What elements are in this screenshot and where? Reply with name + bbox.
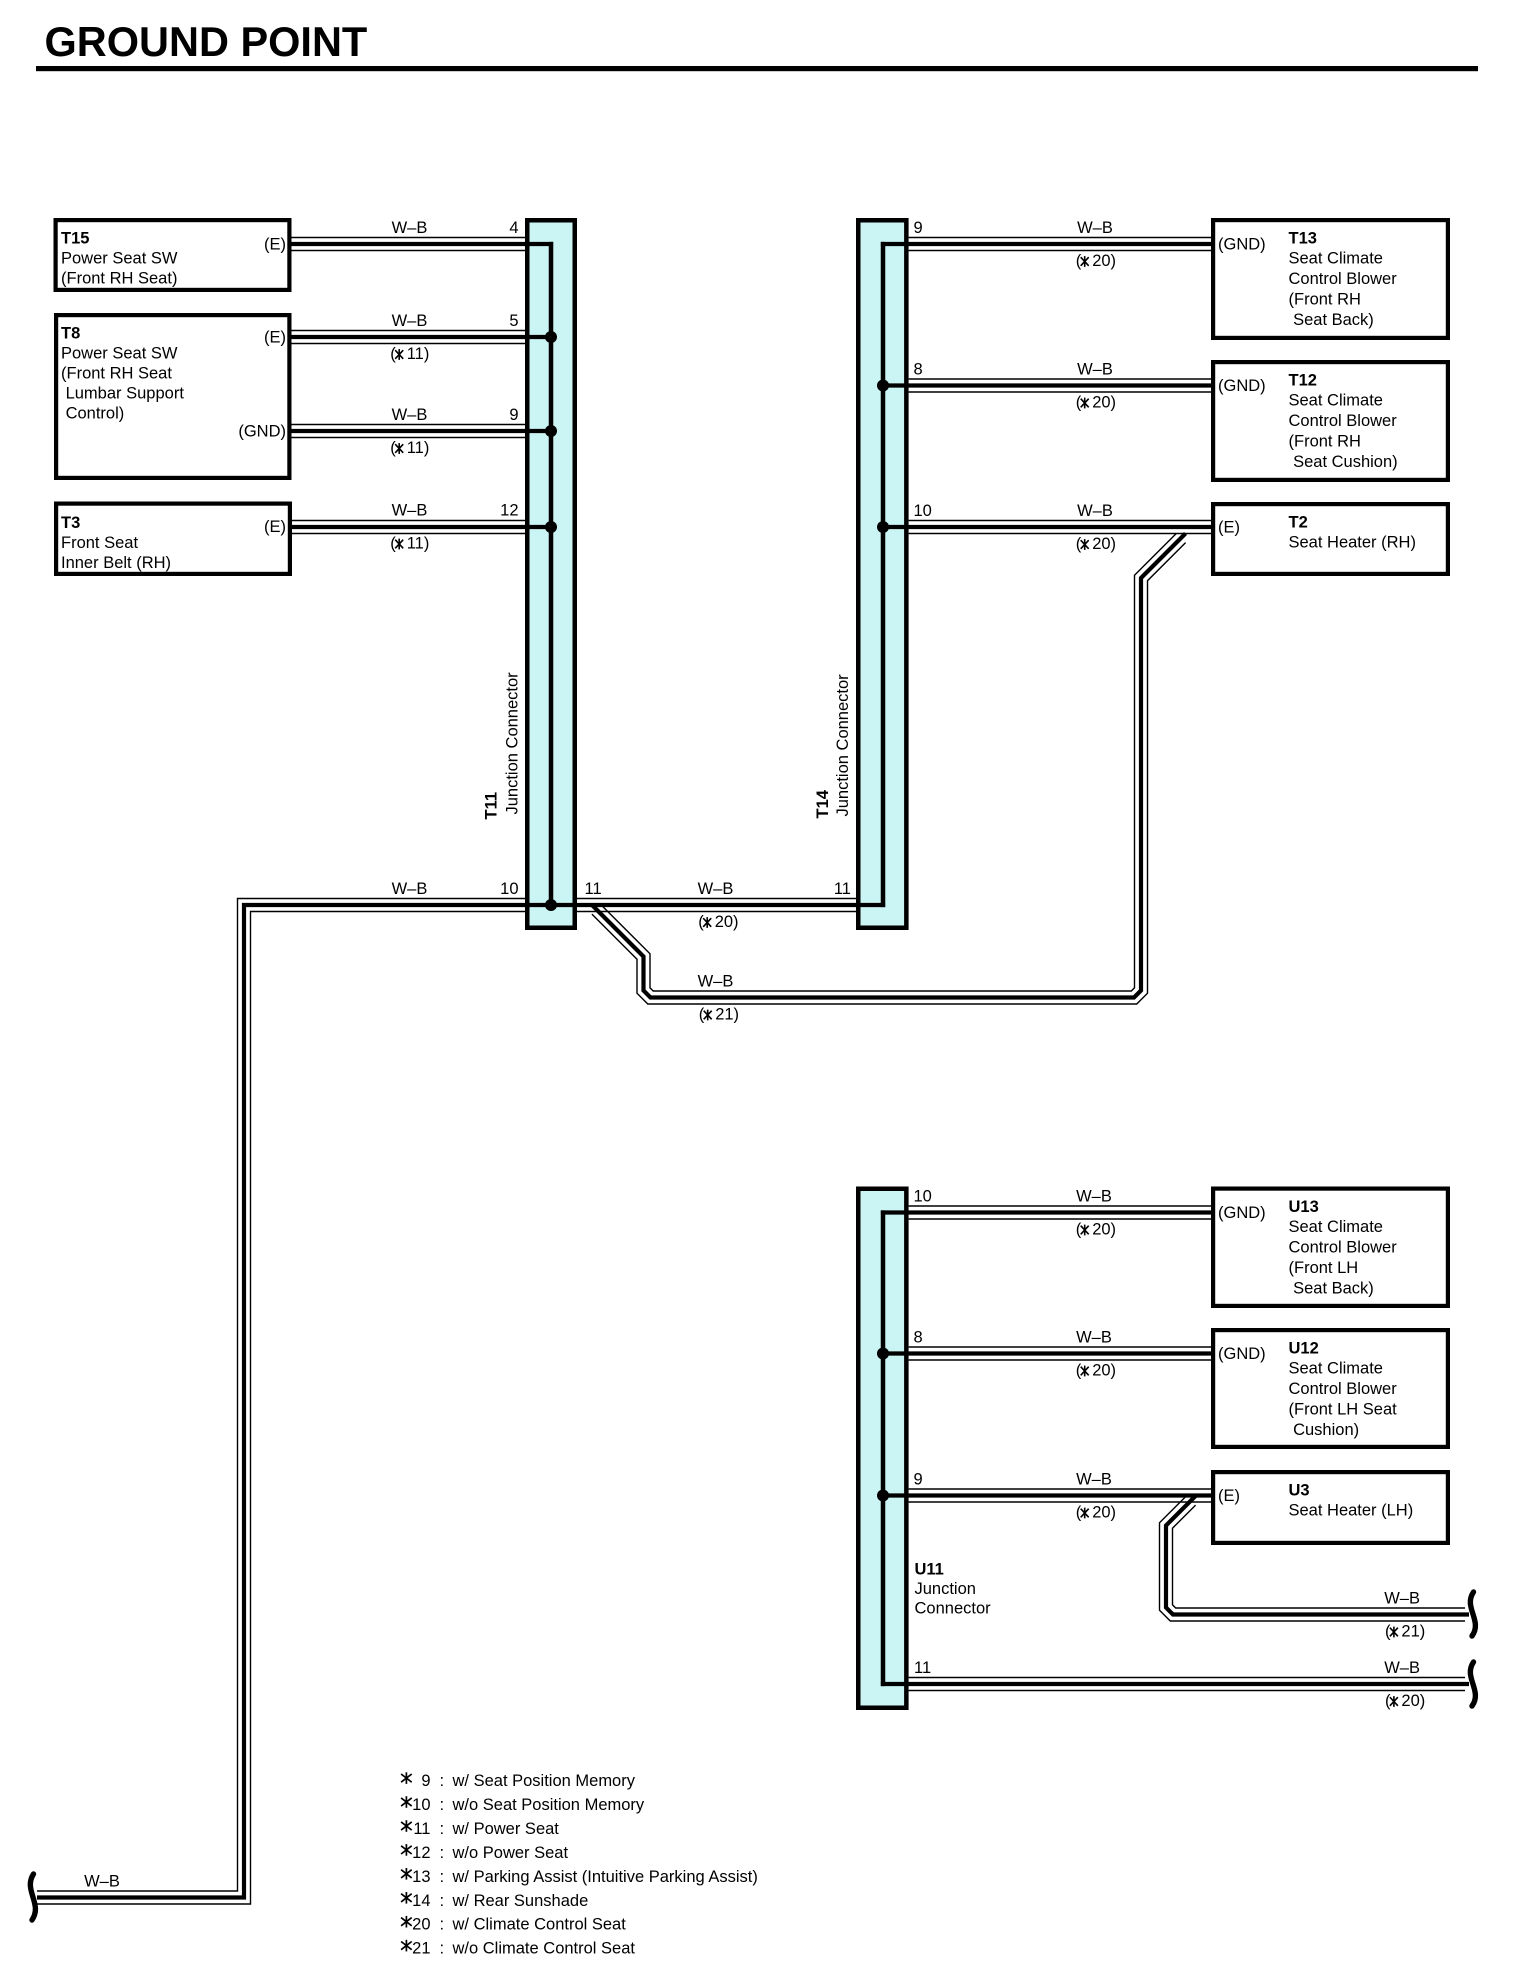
wire W-B: T8 (E) to T11 pin 5 <box>292 331 552 344</box>
legend entry *21 <box>401 1940 635 1958</box>
wire break squiggle bottom-left <box>30 1874 35 1920</box>
wire W-B (*20): U11 pin 8 to U12 (GND) <box>883 1347 1211 1360</box>
svg-text:(GND): (GND) <box>1218 236 1266 254</box>
svg-text:(: ( <box>1076 1362 1082 1380</box>
connector box T12 Seat Climate Control Blower (Front RH Seat Cushion) <box>1213 362 1448 480</box>
svg-text:9: 9 <box>914 219 923 237</box>
legend entry *13 <box>401 1868 758 1886</box>
svg-text:W–B: W–B <box>1076 1471 1112 1489</box>
svg-text:T15: T15 <box>61 230 89 248</box>
junction dot T14 pin 8 <box>877 380 889 392</box>
svg-text:W–B: W–B <box>84 1873 120 1891</box>
svg-text:(GND): (GND) <box>1218 377 1266 395</box>
svg-text:10: 10 <box>412 1796 430 1814</box>
value label (*11) on T3 wire <box>390 535 429 553</box>
value label (*20) on T2 wire <box>1076 535 1116 553</box>
svg-text:10: 10 <box>914 1188 932 1206</box>
wire W-B: T8 (GND) to T11 pin 9 <box>292 425 552 438</box>
svg-text:20): 20) <box>1092 1504 1116 1522</box>
svg-text:10: 10 <box>914 502 932 520</box>
svg-text:Control Blower: Control Blower <box>1289 1239 1398 1257</box>
value label (*20) on U11 pin 11 wire <box>1385 1692 1425 1710</box>
svg-text:(Front RH: (Front RH <box>1289 433 1361 451</box>
svg-text:Control Blower: Control Blower <box>1289 412 1398 430</box>
svg-text:W–B: W–B <box>1077 361 1113 379</box>
svg-text:W–B: W–B <box>698 973 734 991</box>
svg-text:(: ( <box>390 535 396 553</box>
wire W-B: T11 pin 10 down to bottom-left ground lead <box>37 899 551 1905</box>
svg-text::: : <box>440 1820 445 1838</box>
svg-text:Seat Heater (LH): Seat Heater (LH) <box>1289 1502 1414 1520</box>
connector box T13 Seat Climate Control Blower (Front RH Seat Back) <box>1213 220 1448 338</box>
connector box U13 Seat Climate Control Blower (Front LH Seat Back) <box>1213 1189 1448 1306</box>
wire W-B: T3 (E) to T11 pin 12 <box>292 521 551 534</box>
svg-text:T12: T12 <box>1289 371 1317 389</box>
svg-text:20): 20) <box>1092 394 1116 412</box>
svg-text:T8: T8 <box>61 325 80 343</box>
legend entry *12 <box>401 1844 568 1862</box>
junction dot U11 pin 8 <box>877 1348 889 1360</box>
svg-text::: : <box>440 1844 445 1862</box>
svg-text:Control): Control) <box>61 405 124 423</box>
svg-text:W–B: W–B <box>698 880 734 898</box>
wire W-B (*20): U11 pin 11 to right break <box>881 1678 1469 1691</box>
wire break squiggle for U3 (*21) wire <box>1470 1592 1475 1636</box>
svg-text:(E): (E) <box>264 518 286 536</box>
svg-text:(E): (E) <box>1218 519 1240 537</box>
svg-text:Seat Climate: Seat Climate <box>1289 1360 1383 1378</box>
connector box T8 Power Seat SW (Front RH Seat Lumbar Support Control) <box>56 315 289 478</box>
junction dot T14 pin 10 <box>877 521 889 533</box>
svg-text:(E): (E) <box>264 329 286 347</box>
svg-text:Control Blower: Control Blower <box>1289 1380 1398 1398</box>
title underline <box>36 66 1478 71</box>
svg-text:U3: U3 <box>1289 1481 1310 1499</box>
svg-text:T13: T13 <box>1289 229 1317 247</box>
svg-text:W–B: W–B <box>1384 1659 1420 1677</box>
value label (*20) on U12 wire <box>1076 1362 1116 1380</box>
svg-text:12: 12 <box>500 502 518 520</box>
svg-text:(Front RH: (Front RH <box>1289 291 1361 309</box>
wire W-B (*20): U11 pin 10 to U13 (GND) <box>881 1206 1211 1219</box>
junction dot T11 pin 10/11 <box>545 899 557 911</box>
svg-text:(GND): (GND) <box>1218 1204 1266 1222</box>
svg-text:(: ( <box>1076 252 1082 270</box>
connector box U3 Seat Heater (LH) <box>1213 1472 1448 1543</box>
svg-text:T3: T3 <box>61 514 80 532</box>
svg-text:Lumbar Support: Lumbar Support <box>61 385 184 403</box>
svg-text:W–B: W–B <box>392 219 428 237</box>
svg-text:(: ( <box>1076 1504 1082 1522</box>
svg-text:5: 5 <box>509 312 518 330</box>
svg-text:w/o Power Seat: w/o Power Seat <box>452 1844 569 1862</box>
svg-text::: : <box>440 1796 445 1814</box>
svg-text:11: 11 <box>413 1820 430 1838</box>
svg-text:Power Seat SW: Power Seat SW <box>61 345 178 363</box>
svg-text:Connector: Connector <box>915 1600 992 1618</box>
svg-text:20): 20) <box>1092 252 1116 270</box>
svg-text:(Front LH: (Front LH <box>1289 1259 1359 1277</box>
svg-text:T11: T11 <box>483 792 501 820</box>
svg-text:Seat Climate: Seat Climate <box>1289 250 1383 268</box>
svg-text:4: 4 <box>509 219 518 237</box>
value label (*20) on U3 wire <box>1076 1504 1116 1522</box>
svg-text:20): 20) <box>1401 1692 1425 1710</box>
U11 bus bar <box>881 1210 886 1686</box>
svg-text:W–B: W–B <box>1077 219 1113 237</box>
value label (*21) on bypass wire <box>699 1006 739 1024</box>
svg-text:Power Seat SW: Power Seat SW <box>61 250 178 268</box>
svg-text:w/o Seat Position Memory: w/o Seat Position Memory <box>452 1796 645 1814</box>
svg-text:w/ Power Seat: w/ Power Seat <box>452 1820 560 1838</box>
svg-text:Seat Cushion): Seat Cushion) <box>1289 453 1398 471</box>
svg-text::: : <box>440 1772 445 1790</box>
junction connector U11 <box>858 1189 906 1708</box>
svg-text:8: 8 <box>914 361 923 379</box>
svg-text::: : <box>440 1892 445 1910</box>
wire W-B (*20): T14 pin 9 to T13 (GND) <box>881 238 1211 251</box>
svg-text:20): 20) <box>1092 1221 1116 1239</box>
svg-text:(GND): (GND) <box>238 423 286 441</box>
svg-text:20): 20) <box>1092 1362 1116 1380</box>
svg-text:11): 11) <box>407 345 430 363</box>
svg-text:W–B: W–B <box>1384 1590 1420 1608</box>
svg-text:14: 14 <box>412 1892 430 1910</box>
junction connector T14 <box>858 220 906 928</box>
svg-text:(: ( <box>1076 1221 1082 1239</box>
wire W-B: T15 (E) to T11 pin 4 <box>292 238 554 251</box>
wire W-B (*21): branch from T11 pin 11 wire to T2 (E) bypass <box>592 533 1186 1004</box>
svg-text:Seat Heater (RH): Seat Heater (RH) <box>1289 534 1416 552</box>
svg-text:(: ( <box>390 345 396 363</box>
wire W-B (*20): T14 pin 10 to T2 (E) <box>883 521 1211 534</box>
wire break squiggle for U11 pin 11 wire <box>1470 1662 1475 1706</box>
wire W-B (*21): branch from U3 (E) wire to right break <box>1160 1496 1470 1622</box>
svg-text:Seat Back): Seat Back) <box>1289 311 1374 329</box>
svg-text:11): 11) <box>407 535 430 553</box>
svg-text:w/ Climate Control Seat: w/ Climate Control Seat <box>452 1916 627 1934</box>
svg-text:(: ( <box>699 1006 705 1024</box>
svg-text:Seat Climate: Seat Climate <box>1289 1218 1383 1236</box>
svg-text:(Front RH Seat): (Front RH Seat) <box>61 270 177 288</box>
svg-text:GROUND POINT: GROUND POINT <box>45 18 368 65</box>
svg-text:T2: T2 <box>1289 513 1308 531</box>
svg-text:U12: U12 <box>1289 1339 1319 1357</box>
connector box T3 Front Seat Inner Belt (RH) <box>56 504 290 574</box>
svg-text:Seat Back): Seat Back) <box>1289 1279 1374 1297</box>
svg-text:21: 21 <box>412 1940 430 1958</box>
wire W-B (*20): U11 pin 9 to U3 (E) <box>883 1489 1211 1502</box>
wire W-B (*20): T14 pin 8 to T12 (GND) <box>883 379 1211 392</box>
svg-text:Seat Climate: Seat Climate <box>1289 392 1383 410</box>
svg-text:8: 8 <box>914 1329 923 1347</box>
value label (*11) on T8 (E) wire <box>390 345 429 363</box>
legend entry *11 <box>401 1820 559 1838</box>
svg-text:20): 20) <box>715 913 739 931</box>
svg-text:w/ Parking Assist (Intuitive P: w/ Parking Assist (Intuitive Parking Ass… <box>452 1868 758 1886</box>
connector box T2 Seat Heater (RH) <box>1213 504 1448 574</box>
svg-text:W–B: W–B <box>392 880 428 898</box>
svg-text:Junction Connector: Junction Connector <box>834 674 852 817</box>
junction dot T11 pin 5 <box>545 331 557 343</box>
junction dot T11 pin 12 <box>545 521 557 533</box>
legend entry *20 <box>401 1916 626 1934</box>
svg-text:(GND): (GND) <box>1218 1345 1266 1363</box>
svg-text:21): 21) <box>1401 1623 1425 1641</box>
svg-text:T14: T14 <box>814 789 832 818</box>
svg-text:w/ Seat Position Memory: w/ Seat Position Memory <box>452 1772 636 1790</box>
wire W-B (*20): T11 pin 11 to T14 pin 11 <box>551 899 885 912</box>
svg-text:Junction: Junction <box>915 1580 976 1598</box>
svg-text:U11: U11 <box>915 1561 944 1579</box>
svg-text:11): 11) <box>407 439 430 457</box>
svg-text:Cushion): Cushion) <box>1289 1421 1360 1439</box>
svg-text:13: 13 <box>412 1868 430 1886</box>
svg-text:W–B: W–B <box>1076 1329 1112 1347</box>
svg-text:(Front LH Seat: (Front LH Seat <box>1289 1401 1398 1419</box>
connector box T15 Power Seat SW (Front RH Seat) <box>56 220 290 290</box>
svg-text:Inner Belt (RH): Inner Belt (RH) <box>61 554 171 572</box>
svg-text:9: 9 <box>421 1772 430 1790</box>
value label (*20) on T12 wire <box>1076 394 1116 412</box>
svg-text:20: 20 <box>412 1916 430 1934</box>
svg-text:w/o Climate Control Seat: w/o Climate Control Seat <box>452 1940 636 1958</box>
svg-text:W–B: W–B <box>1077 502 1113 520</box>
svg-text:(: ( <box>1076 535 1082 553</box>
connector box U12 Seat Climate Control Blower (Front LH Seat Cushion) <box>1213 1330 1448 1447</box>
svg-text:11: 11 <box>914 1659 931 1677</box>
svg-text::: : <box>440 1868 445 1886</box>
svg-text:U13: U13 <box>1289 1198 1319 1216</box>
T11 bus bar <box>549 242 554 905</box>
value label (*20) on U13 wire <box>1076 1221 1116 1239</box>
svg-text:(Front RH Seat: (Front RH Seat <box>61 365 172 383</box>
svg-text:(E): (E) <box>1218 1487 1240 1505</box>
svg-text:21): 21) <box>715 1006 739 1024</box>
svg-text:(E): (E) <box>264 236 286 254</box>
svg-text:11: 11 <box>834 880 851 898</box>
svg-text:(: ( <box>390 439 396 457</box>
svg-text:W–B: W–B <box>392 312 428 330</box>
value label (*20) on T13 wire <box>1076 252 1116 270</box>
svg-text:12: 12 <box>412 1844 430 1862</box>
svg-text:11: 11 <box>585 880 602 898</box>
value label (*21) on U3 branch wire <box>1385 1623 1425 1641</box>
junction connector T11 <box>527 220 575 928</box>
svg-text:9: 9 <box>914 1471 923 1489</box>
svg-text:W–B: W–B <box>392 406 428 424</box>
junction dot U11 pin 9 <box>877 1490 889 1502</box>
svg-text:9: 9 <box>509 406 518 424</box>
svg-text:(: ( <box>698 913 704 931</box>
svg-text:(: ( <box>1385 1623 1391 1641</box>
svg-text:(: ( <box>1076 394 1082 412</box>
svg-text:Junction Connector: Junction Connector <box>504 672 522 815</box>
T14 bus bar <box>881 242 886 907</box>
svg-text:20): 20) <box>1092 535 1116 553</box>
junction dot T11 pin 9 <box>545 425 557 437</box>
legend entry *14 <box>401 1892 588 1910</box>
value label (*11) on T8 (GND) wire <box>390 439 429 457</box>
legend entry *9 <box>401 1772 636 1790</box>
svg-text:W–B: W–B <box>392 502 428 520</box>
svg-text:10: 10 <box>500 880 518 898</box>
svg-text:W–B: W–B <box>1076 1188 1112 1206</box>
svg-text::: : <box>440 1940 445 1958</box>
svg-text::: : <box>440 1916 445 1934</box>
svg-text:Control Blower: Control Blower <box>1289 270 1398 288</box>
legend entry *10 <box>401 1796 645 1814</box>
value label (*20) on T11-T14 wire <box>698 913 738 931</box>
svg-text:w/ Rear Sunshade: w/ Rear Sunshade <box>452 1892 589 1910</box>
svg-text:(: ( <box>1385 1692 1391 1710</box>
svg-text:Front Seat: Front Seat <box>61 534 138 552</box>
